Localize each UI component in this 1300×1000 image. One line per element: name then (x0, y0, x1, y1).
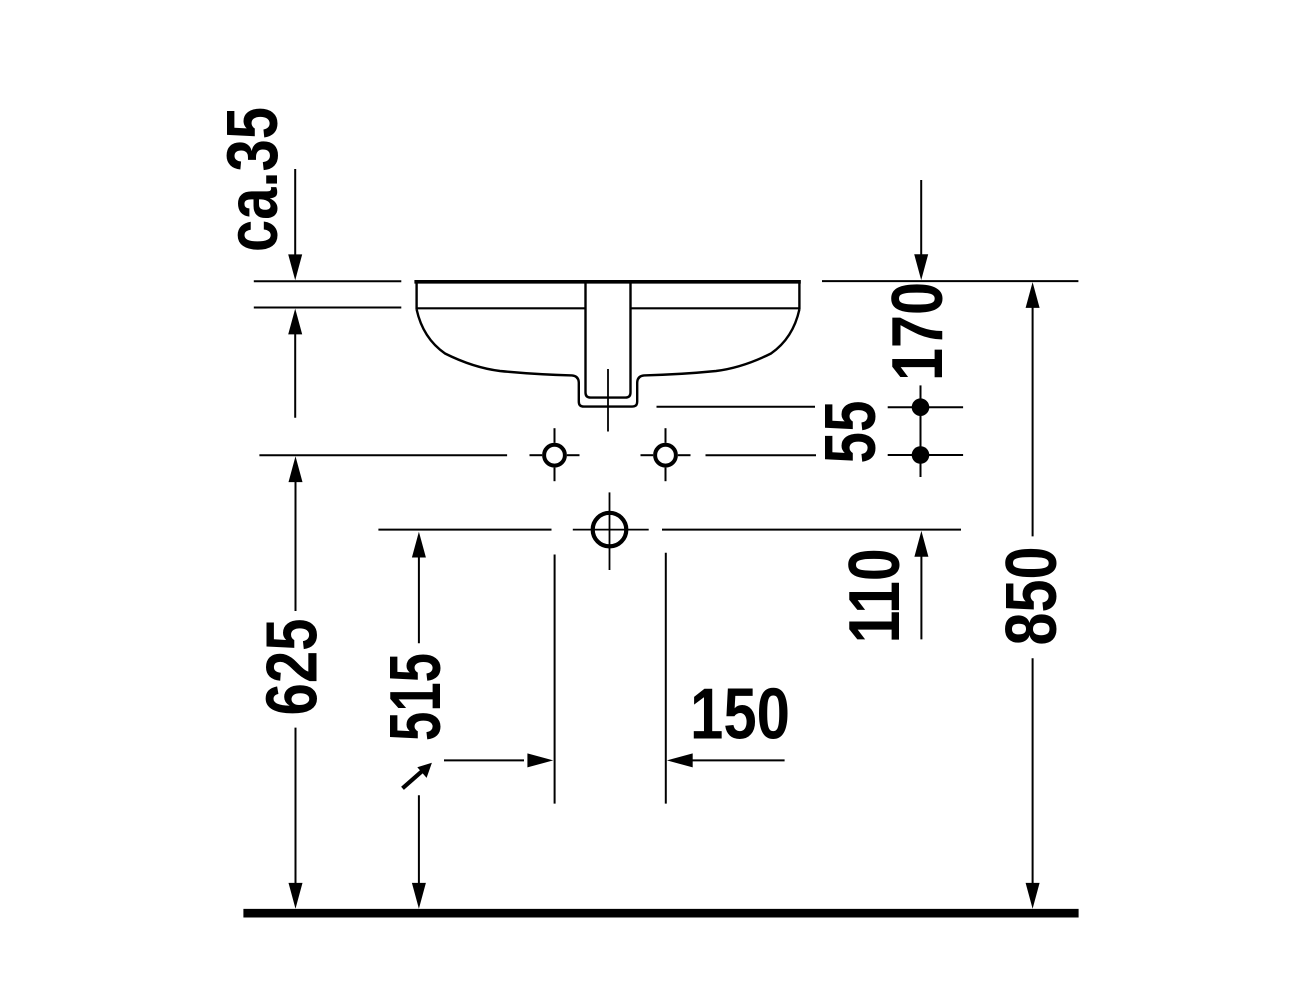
dimension ca.35 upper arrow (294, 169, 296, 257)
tick through wall dot 1 (888, 406, 963, 408)
svg-text:ca.35: ca.35 (213, 107, 293, 252)
leader arrow for 515 (403, 770, 424, 788)
vertical line through wall dots (920, 385, 922, 477)
basin rim left edge (415, 280, 417, 309)
basin rim top edge (414, 280, 800, 284)
wall fixing dot 1 (912, 398, 930, 416)
svg-text:150: 150 (690, 675, 790, 755)
drain reference line right segment (662, 529, 961, 531)
dimension 850 lower shaft and arrow (1032, 658, 1034, 886)
dimension 625 lower shaft and arrow (295, 728, 297, 886)
svg-text:110: 110 (835, 548, 915, 643)
faucet reference line left segment (259, 454, 507, 456)
dimension 170 arrow (920, 180, 922, 256)
dimension 850 upper arrow (1026, 282, 1040, 308)
floor line (243, 909, 1078, 918)
drain hole circle (593, 513, 627, 547)
basin centerline (607, 369, 609, 432)
svg-text:625: 625 (253, 619, 333, 716)
right faucet hole crosshair (641, 454, 654, 456)
faucet reference line middle segment (706, 454, 817, 456)
svg-text:515: 515 (376, 653, 456, 741)
drain reference line left segment (378, 529, 551, 531)
left faucet hole (544, 445, 565, 466)
wall fixing dot 2 (912, 446, 930, 464)
svg-text:850: 850 (992, 547, 1072, 646)
left faucet hole crosshair (530, 454, 543, 456)
basin rim right edge (798, 280, 800, 309)
basin rim bottom line left part (417, 307, 586, 309)
outlet reference line y407 (657, 406, 816, 408)
extension line right for 150 (665, 553, 667, 804)
svg-text:55: 55 (811, 401, 891, 464)
top reference line right (822, 280, 1078, 282)
dimension ca.35 lower arrow (288, 309, 302, 335)
drain crosshair vertical (609, 492, 611, 570)
reference line pair left upper (254, 280, 401, 282)
leader shaft horizontal for 515 (444, 759, 524, 761)
dimension 150 left-pointing arrow (667, 753, 693, 767)
dimension 110 arrow (914, 531, 928, 557)
basin inner drain slot (586, 284, 631, 398)
extension line left for 150 (554, 555, 556, 804)
right faucet hole (655, 445, 676, 466)
basin rim bottom line right part (631, 307, 800, 309)
dimension 515 lower shaft and arrow (418, 795, 420, 886)
basin bowl outline with drain foot (417, 309, 800, 406)
reference line pair left lower (254, 307, 401, 309)
dimension 625 upper arrow (289, 456, 303, 482)
tick through wall dot 2 (888, 454, 963, 456)
drain crosshair horizontal (573, 529, 649, 531)
svg-text:170: 170 (878, 282, 958, 381)
dimension 515 upper arrow (412, 532, 426, 558)
